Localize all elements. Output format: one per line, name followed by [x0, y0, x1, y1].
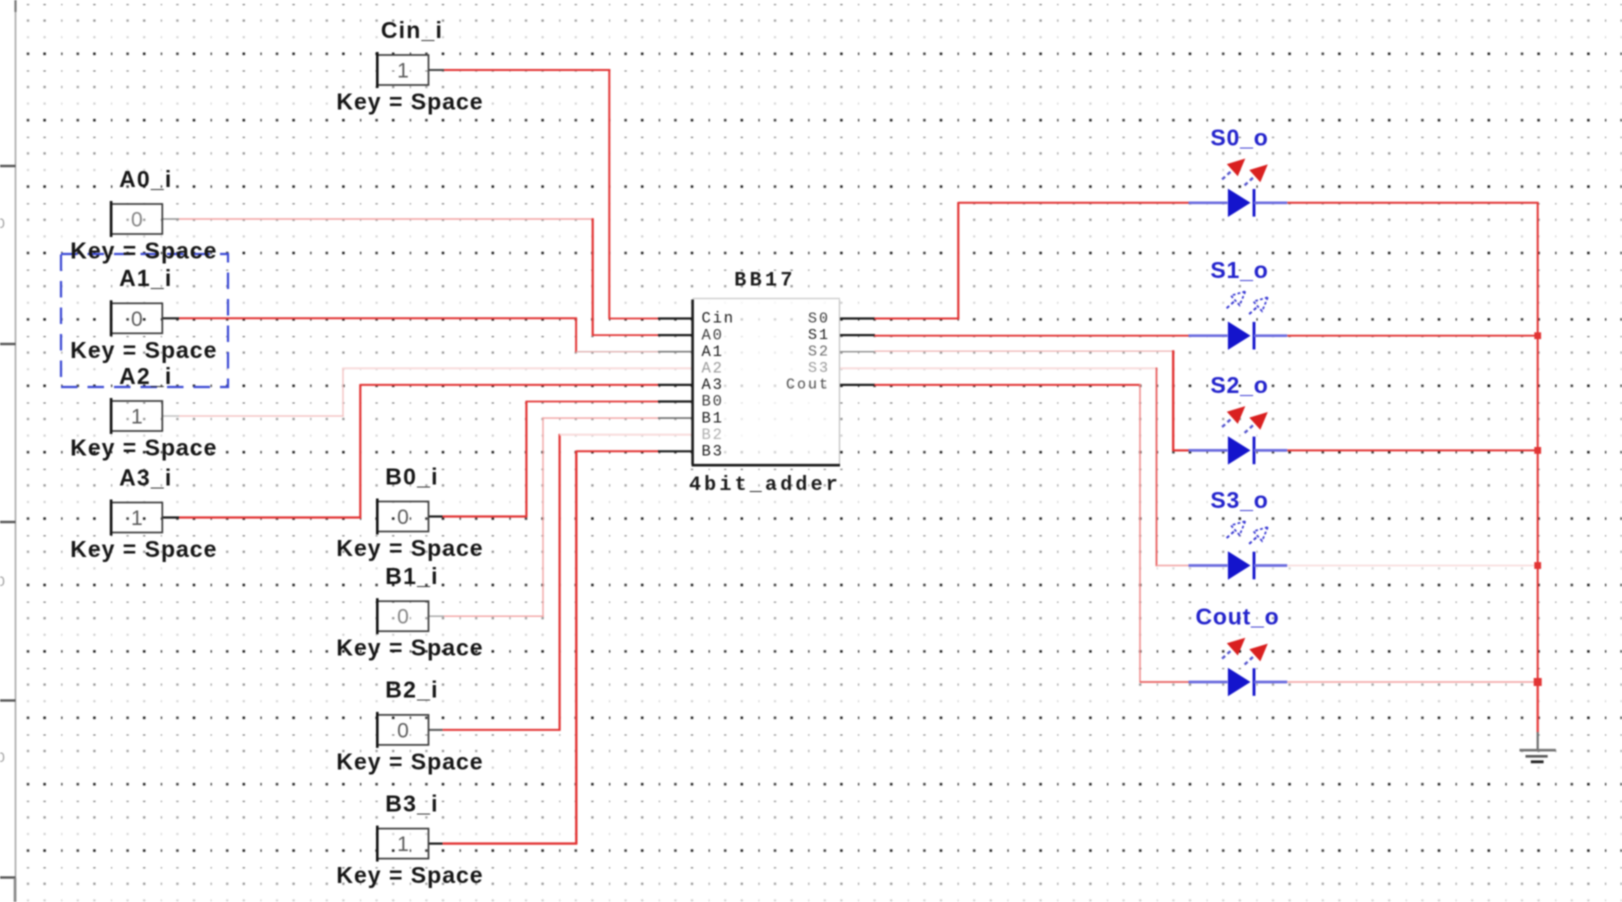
svg-text:A3: A3 — [702, 376, 724, 394]
svg-text:0: 0 — [397, 606, 409, 629]
svg-text:0: 0 — [0, 573, 5, 589]
svg-text:S1_o: S1_o — [1210, 257, 1268, 283]
svg-text:B2: B2 — [702, 426, 724, 444]
svg-text:S2: S2 — [808, 344, 830, 361]
svg-text:S3_o: S3_o — [1210, 487, 1268, 513]
svg-text:Cout_o: Cout_o — [1195, 604, 1279, 630]
svg-text:B0: B0 — [702, 393, 724, 411]
svg-text:B2_i: B2_i — [385, 677, 438, 703]
svg-text:Key = Space: Key = Space — [336, 635, 483, 661]
svg-text:A1: A1 — [702, 343, 724, 361]
svg-text:Cin_i: Cin_i — [381, 17, 443, 43]
svg-text:0: 0 — [397, 719, 409, 742]
svg-text:Cout: Cout — [786, 377, 830, 394]
svg-text:Key = Space: Key = Space — [336, 862, 483, 888]
svg-text:BB17: BB17 — [734, 269, 796, 292]
svg-text:Cin: Cin — [702, 310, 735, 328]
svg-text:Key = Space: Key = Space — [70, 238, 217, 264]
svg-text:S0: S0 — [808, 310, 830, 327]
svg-text:S3: S3 — [808, 360, 830, 377]
svg-text:Key = Space: Key = Space — [336, 535, 483, 561]
svg-text:4bit_adder: 4bit_adder — [689, 474, 841, 497]
svg-text:0: 0 — [131, 308, 143, 331]
svg-text:1: 1 — [397, 833, 409, 856]
svg-text:1: 1 — [131, 406, 143, 429]
svg-text:0: 0 — [0, 215, 5, 231]
svg-text:S1: S1 — [808, 327, 830, 344]
svg-text:A2: A2 — [702, 360, 724, 378]
svg-text:S0_o: S0_o — [1210, 124, 1268, 150]
svg-text:B1_i: B1_i — [385, 563, 438, 589]
svg-text:A3_i: A3_i — [119, 464, 172, 490]
svg-text:Key = Space: Key = Space — [336, 89, 483, 115]
svg-text:1: 1 — [131, 507, 143, 530]
svg-text:B0_i: B0_i — [385, 463, 438, 489]
svg-text:0: 0 — [131, 209, 143, 232]
svg-text:Key = Space: Key = Space — [70, 536, 217, 562]
svg-text:A1_i: A1_i — [119, 265, 172, 291]
svg-text:0: 0 — [397, 506, 409, 529]
svg-text:Key = Space: Key = Space — [336, 748, 483, 774]
svg-text:0: 0 — [0, 749, 5, 765]
svg-text:Key = Space: Key = Space — [70, 337, 217, 363]
svg-text:A0_i: A0_i — [119, 166, 172, 192]
svg-text:1: 1 — [397, 60, 409, 83]
svg-text:A2_i: A2_i — [119, 363, 172, 389]
svg-text:B1: B1 — [702, 409, 724, 427]
svg-text:S2_o: S2_o — [1210, 372, 1268, 398]
svg-text:Key = Space: Key = Space — [70, 435, 217, 461]
svg-text:B3: B3 — [702, 443, 724, 461]
svg-text:B3_i: B3_i — [385, 790, 438, 816]
svg-text:A0: A0 — [702, 326, 724, 344]
